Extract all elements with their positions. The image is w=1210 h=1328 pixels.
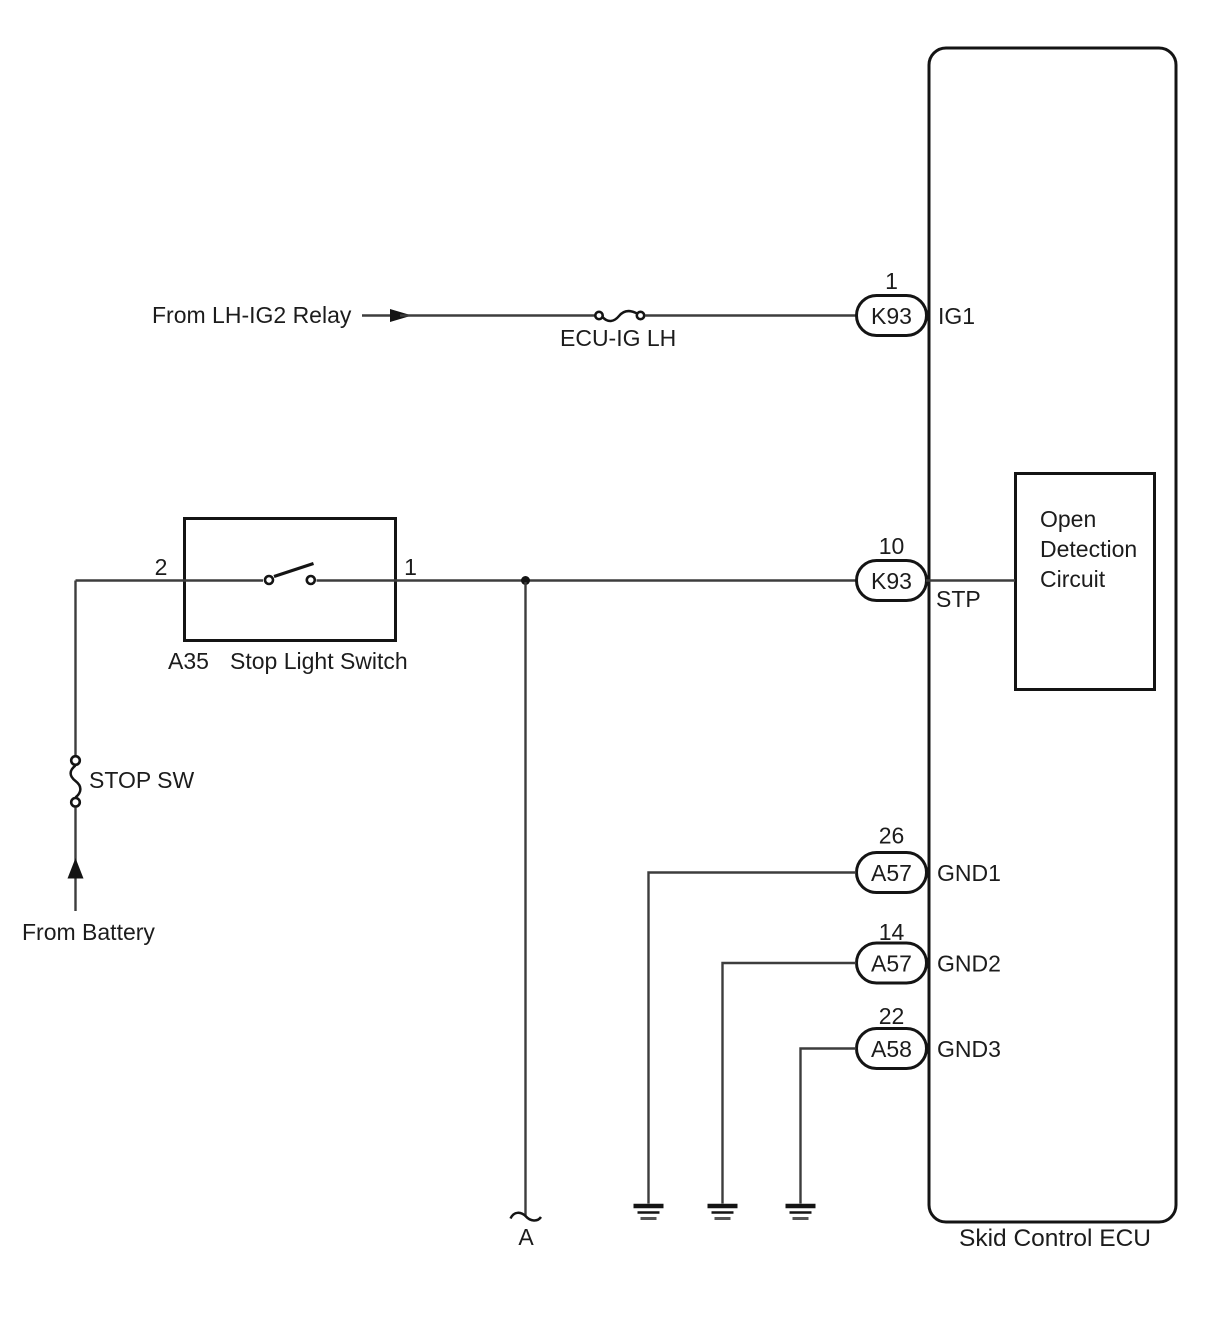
svg-text:ECU-IG LH: ECU-IG LH bbox=[560, 325, 676, 351]
svg-text:A: A bbox=[518, 1224, 534, 1250]
wire junction down to A bbox=[524, 582, 526, 1216]
arrow feed direction bbox=[390, 309, 412, 322]
svg-text:GND2: GND2 bbox=[937, 951, 1001, 977]
Skid Control ECU box bbox=[929, 48, 1176, 1252]
svg-text:GND1: GND1 bbox=[937, 860, 1001, 886]
node junction A bbox=[521, 576, 530, 585]
svg-text:1: 1 bbox=[404, 554, 417, 580]
svg-text:10: 10 bbox=[879, 533, 905, 559]
svg-text:STOP SW: STOP SW bbox=[89, 767, 195, 793]
svg-text:Skid Control ECU: Skid Control ECU bbox=[959, 1225, 1151, 1252]
svg-text:From LH-IG2 Relay: From LH-IG2 Relay bbox=[152, 302, 352, 328]
svg-text:26: 26 bbox=[879, 823, 905, 849]
svg-text:STP: STP bbox=[936, 586, 981, 612]
connector K93 pin 1 (IG1) bbox=[857, 296, 927, 336]
switch STOP SW bbox=[71, 756, 195, 806]
wire switch branch down bbox=[74, 581, 76, 757]
connector K93 pin 10 (STP) bbox=[857, 561, 927, 601]
svg-text:From Battery: From Battery bbox=[22, 919, 155, 945]
switch contact right bbox=[307, 576, 315, 584]
arrow from battery bbox=[68, 858, 84, 879]
wire from relay label to arrow bbox=[362, 314, 396, 316]
svg-text:14: 14 bbox=[879, 919, 905, 945]
connector A57 pin 26 (GND1) bbox=[857, 853, 927, 893]
svg-text:Circuit: Circuit bbox=[1040, 566, 1106, 592]
wire STP to open detection circuit bbox=[926, 579, 1015, 581]
svg-text:Detection: Detection bbox=[1040, 536, 1137, 562]
svg-text:A57: A57 bbox=[871, 951, 912, 977]
ground GND2 bbox=[708, 1206, 738, 1219]
wire GND1 to ground bbox=[649, 873, 857, 1204]
Open Detection Circuit box bbox=[1016, 474, 1155, 690]
switch contact left bbox=[265, 576, 273, 584]
switch lever bbox=[274, 564, 314, 577]
svg-text:22: 22 bbox=[879, 1003, 905, 1029]
wire GND3 to ground bbox=[801, 1049, 857, 1204]
connector A58 pin 22 (GND3) bbox=[857, 1029, 927, 1069]
wire GND2 to ground bbox=[723, 963, 857, 1204]
svg-text:A57: A57 bbox=[871, 860, 912, 886]
ground GND1 bbox=[634, 1206, 664, 1219]
break squiggle bbox=[511, 1213, 542, 1221]
svg-text:IG1: IG1 bbox=[938, 303, 975, 329]
svg-text:A35: A35 bbox=[168, 648, 209, 674]
svg-text:Open: Open bbox=[1040, 506, 1096, 532]
ground GND3 bbox=[786, 1206, 816, 1219]
fuse ECU-IG LH bbox=[560, 311, 676, 351]
stop light switch A35 box bbox=[168, 519, 408, 675]
svg-text:GND3: GND3 bbox=[937, 1036, 1001, 1062]
connector A57 pin 14 (GND2) bbox=[857, 943, 927, 983]
svg-text:K93: K93 bbox=[871, 568, 912, 594]
svg-text:2: 2 bbox=[155, 554, 168, 580]
wire battery to stop sw bbox=[74, 808, 76, 912]
wire left to switch bbox=[76, 579, 264, 581]
wire fuse to IG1 connector bbox=[645, 314, 857, 316]
svg-text:1: 1 bbox=[885, 268, 898, 294]
wire switch to STP connector bbox=[317, 579, 858, 581]
svg-text:K93: K93 bbox=[871, 303, 912, 329]
wire arrow to fuse bbox=[400, 314, 595, 316]
svg-text:A58: A58 bbox=[871, 1036, 912, 1062]
svg-text:Stop Light Switch: Stop Light Switch bbox=[230, 648, 408, 674]
